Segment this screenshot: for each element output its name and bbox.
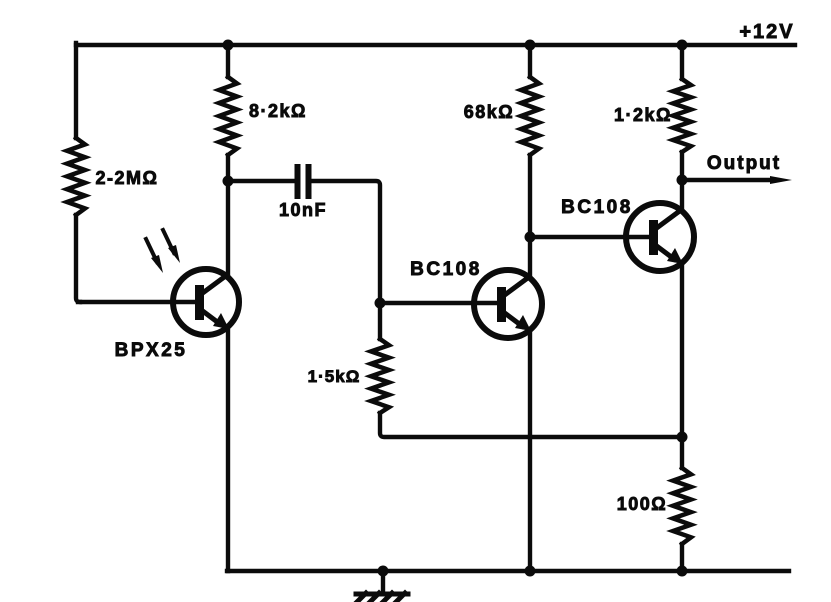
resistor R3 1.5k zigzag [371, 339, 389, 413]
wire top +12V rail [76, 43, 795, 47]
node junction cap wire / 1.5k / Q1 base [375, 298, 386, 309]
node junction top of 8.2k [223, 40, 234, 51]
wire 68k bottom lead to Q2 base node [528, 155, 532, 237]
resistor R2 8.2k zigzag [219, 77, 237, 155]
svg-text:68kΩ: 68kΩ [464, 102, 514, 122]
wire 1.2k top lead [680, 45, 684, 79]
ground symbol [354, 571, 408, 602]
wire BPX25 base horizontal [78, 300, 200, 304]
node junction top rail / 68k [525, 40, 536, 51]
svg-text:BC108: BC108 [561, 197, 633, 218]
svg-text:8·2kΩ: 8·2kΩ [249, 101, 307, 121]
light arrow 1 into BPX25 [146, 239, 163, 273]
resistor R1 2.2M zigzag [67, 138, 85, 215]
node junction 68k / Q1 collector / Q2 base [525, 232, 536, 243]
svg-text:100Ω: 100Ω [617, 494, 667, 514]
wire 8.2k bottom lead to node [226, 155, 230, 181]
wire 100R top lead [680, 437, 684, 468]
wire Q2 base horizontal [530, 235, 654, 239]
wire node to capacitor left plate [228, 179, 294, 183]
wire 68k top lead [528, 45, 532, 77]
wire left column vertical bottom (2.2M to base corner) [76, 215, 80, 302]
node junction 8.2k / capacitor / BPX25 collector [223, 176, 234, 187]
svg-text:10nF: 10nF [279, 200, 327, 220]
wire output line [682, 178, 775, 182]
wire Q2 collector vertical [680, 180, 684, 210]
wire capacitor right plate to corner and down to node [311, 181, 380, 303]
wire bottom ground rail [227, 569, 789, 573]
svg-text:2-2MΩ: 2-2MΩ [96, 168, 159, 188]
arrowhead output [770, 176, 792, 184]
svg-text:+12V: +12V [739, 21, 794, 43]
node junction output / Q2 collector [677, 175, 688, 186]
node junction top rail / 1.2k [677, 40, 688, 51]
wire left column vertical top (rail to 2.2M) [74, 43, 78, 138]
node junction 100R on rail [677, 566, 688, 577]
node junction ground stub [378, 566, 389, 577]
svg-text:BC108: BC108 [410, 259, 482, 280]
wire BPX25 collector vertical [226, 181, 230, 275]
wire 8.2k top lead [226, 45, 230, 77]
transistor Q2 BC108 middle [474, 270, 542, 338]
svg-text:1·5kΩ: 1·5kΩ [308, 367, 361, 386]
wire 1.5k top lead [378, 303, 382, 339]
wire 1.2k bottom lead to output node [680, 152, 684, 180]
svg-text:1·2kΩ: 1·2kΩ [614, 105, 672, 125]
wire Q1 emitter down to bottom rail [528, 331, 532, 571]
wire 100R bottom lead [680, 544, 684, 571]
capacitor C1 10nF plates [298, 167, 309, 196]
transistor Q1 BPX25 phototransistor [173, 269, 239, 335]
wire Q2 emitter down to 100R node [680, 264, 684, 437]
resistor R5 1.2k zigzag [673, 79, 691, 152]
resistor R4 68k zigzag [521, 77, 539, 155]
node junction emitter / 1.5k wire / 100R [677, 432, 688, 443]
wire 1.5k bottom lead corner to emitter column [380, 413, 681, 437]
light arrow 2 into BPX25 [163, 230, 180, 263]
wire BPX25 emitter down to bottom rail [226, 329, 230, 571]
wire Q1 base horizontal [380, 301, 502, 305]
node junction Q1 emitter on rail [525, 566, 536, 577]
transistor Q3 BC108 right [626, 203, 694, 271]
svg-text:BPX25: BPX25 [115, 340, 188, 361]
resistor R6 100R zigzag [673, 468, 691, 544]
wire Q1 collector vertical [528, 237, 532, 277]
svg-text:Output: Output [707, 153, 781, 174]
